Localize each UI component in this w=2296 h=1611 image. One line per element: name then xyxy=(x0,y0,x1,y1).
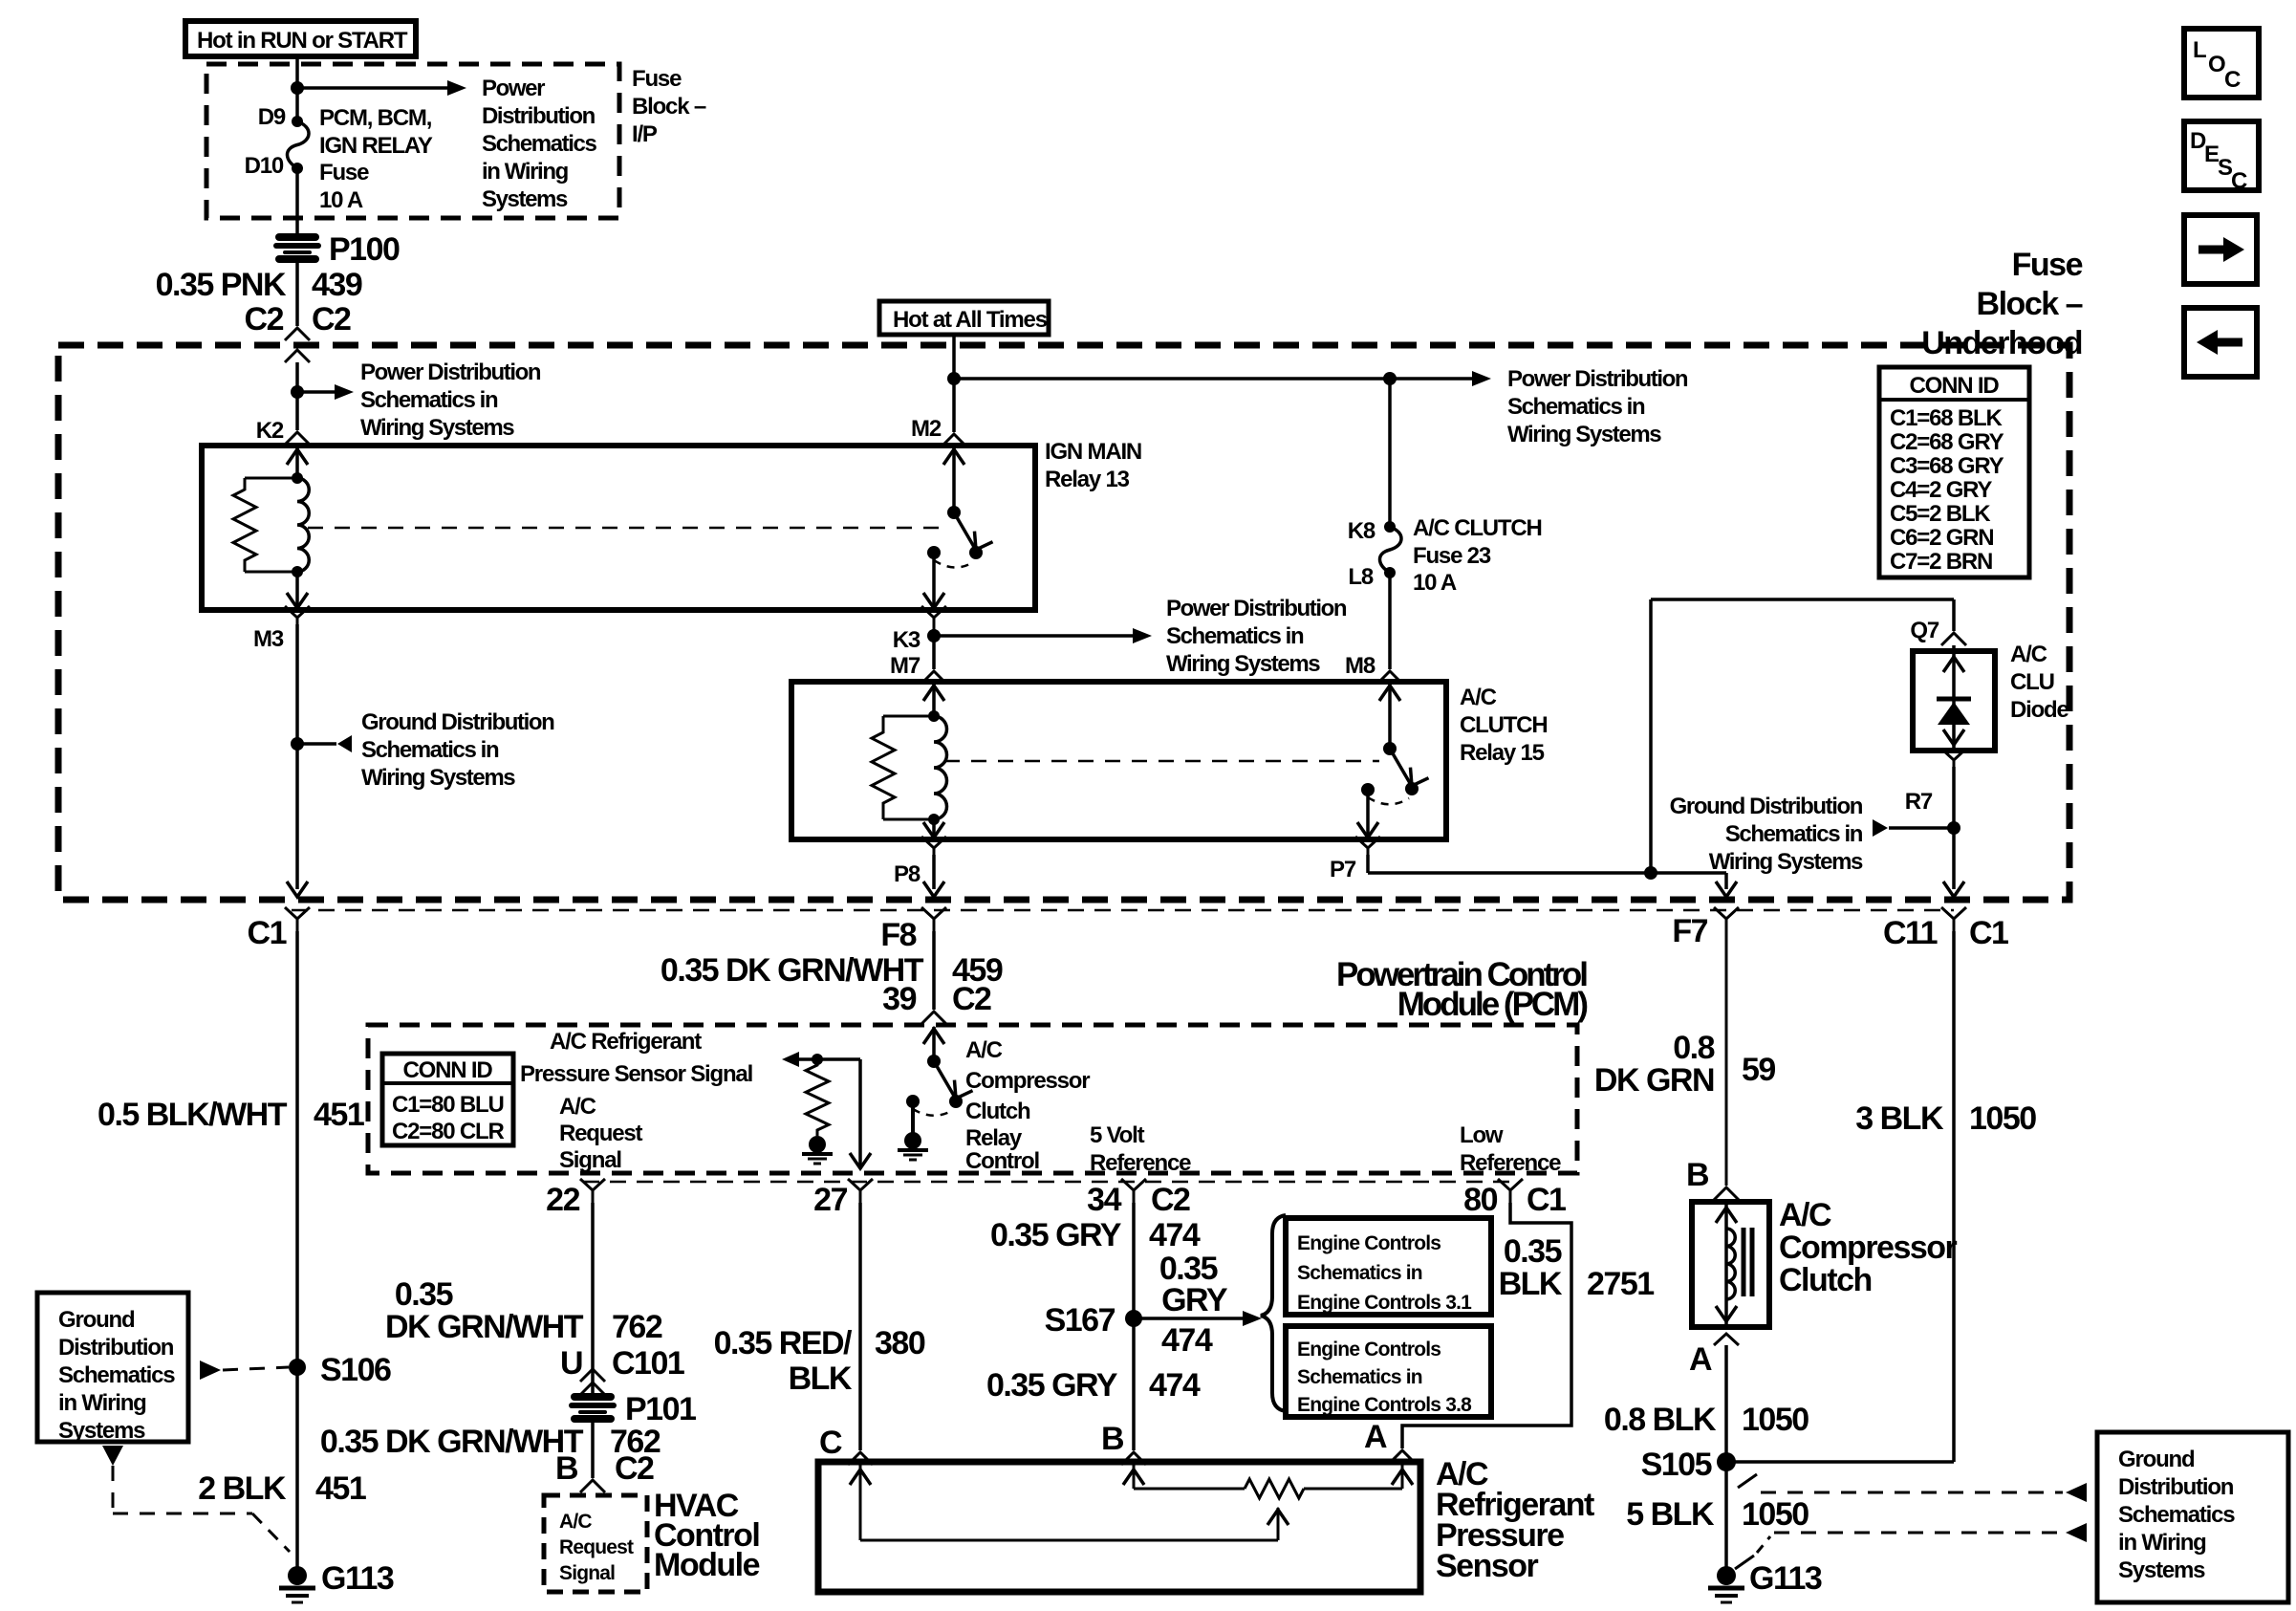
svg-text:3 BLK: 3 BLK xyxy=(1855,1100,1944,1137)
svg-text:M2: M2 xyxy=(911,416,942,442)
svg-text:A/C: A/C xyxy=(559,1511,592,1533)
connector P101 xyxy=(572,1397,614,1419)
pin A of compressor clutch xyxy=(1714,1334,1739,1345)
node R7 xyxy=(1941,749,1966,773)
wire P100 to underhood fuse block, circuit 439 PNK xyxy=(295,259,299,326)
svg-text:Systems: Systems xyxy=(58,1418,145,1444)
svg-text:39: 39 xyxy=(882,981,916,1017)
button arrow right xyxy=(2184,215,2257,284)
wire 762 to HVAC xyxy=(591,1419,595,1478)
svg-text:Power Distribution: Power Distribution xyxy=(360,359,541,385)
CONN ID table (underhood) xyxy=(1879,367,2029,577)
svg-text:BLK: BLK xyxy=(789,1361,853,1397)
svg-text:Schematics in: Schematics in xyxy=(1725,821,1863,847)
svg-text:Pressure Sensor Signal: Pressure Sensor Signal xyxy=(520,1061,752,1087)
svg-text:Schematics in: Schematics in xyxy=(1507,394,1645,420)
PCM internal clutch relay control switch xyxy=(932,1027,936,1061)
svg-text:S167: S167 xyxy=(1045,1302,1116,1339)
pin 80 / C1 xyxy=(1498,1179,1523,1203)
node P7 below relay xyxy=(1355,837,1380,860)
svg-text:S106: S106 xyxy=(320,1352,391,1388)
svg-text:Module: Module xyxy=(654,1547,760,1583)
svg-text:Fuse 23: Fuse 23 xyxy=(1413,543,1491,569)
dashed ref to S106 xyxy=(200,1361,221,1380)
svg-text:Schematics in: Schematics in xyxy=(360,387,498,413)
svg-text:K2: K2 xyxy=(256,418,284,444)
svg-text:Request: Request xyxy=(559,1121,642,1146)
pin C11 / C1 xyxy=(1941,907,1966,931)
svg-text:A: A xyxy=(1689,1341,1712,1378)
svg-text:A/C: A/C xyxy=(965,1037,1003,1063)
wire M2 feed from Hot at All Times xyxy=(952,335,956,432)
svg-text:M7: M7 xyxy=(890,653,921,679)
CONN ID table (PCM) xyxy=(382,1054,513,1145)
svg-text:Engine Controls: Engine Controls xyxy=(1297,1339,1440,1361)
button DESC xyxy=(2184,121,2259,190)
svg-text:C11: C11 xyxy=(1883,915,1938,951)
svg-text:M3: M3 xyxy=(253,626,284,652)
svg-text:Schematics in: Schematics in xyxy=(361,737,499,763)
pin F8 xyxy=(921,907,946,931)
junction node diode branch on P7 wire xyxy=(1644,866,1657,880)
svg-text:M8: M8 xyxy=(1345,653,1375,679)
svg-text:P101: P101 xyxy=(625,1391,696,1427)
svg-text:Power: Power xyxy=(482,76,545,101)
svg-text:1050: 1050 xyxy=(1969,1100,2036,1137)
wire M3 to C1 pin, exit arrow xyxy=(287,882,308,897)
PCM connector face dashed line xyxy=(292,909,1954,912)
wire L8 to M8 xyxy=(1388,573,1392,669)
svg-text:451: 451 xyxy=(315,1470,366,1507)
svg-text:Q7: Q7 xyxy=(1910,618,1939,643)
svg-text:D10: D10 xyxy=(245,153,284,179)
svg-text:G113: G113 xyxy=(321,1560,394,1597)
relay coil exit arrow (M3) xyxy=(295,572,299,608)
svg-text:P100: P100 xyxy=(329,231,400,268)
relay coil entry arrow (M7) xyxy=(932,684,936,716)
svg-text:D9: D9 xyxy=(258,104,286,130)
relay coil + resistor parallel xyxy=(292,472,303,484)
svg-text:Engine Controls: Engine Controls xyxy=(1297,1232,1440,1254)
svg-text:Compressor: Compressor xyxy=(1779,1230,1958,1266)
button LOC xyxy=(2184,29,2259,98)
svg-text:Signal: Signal xyxy=(559,1562,615,1584)
svg-text:Block –: Block – xyxy=(632,94,706,120)
relay coil entry arrow (K2) xyxy=(295,447,299,478)
svg-text:34: 34 xyxy=(1087,1182,1121,1218)
svg-text:in Wiring: in Wiring xyxy=(2118,1530,2206,1556)
svg-text:Wiring Systems: Wiring Systems xyxy=(1166,651,1320,677)
svg-text:Schematics: Schematics xyxy=(58,1362,175,1388)
svg-text:C1=80 BLU: C1=80 BLU xyxy=(392,1092,504,1118)
engine controls ref box 3.8 xyxy=(1286,1326,1491,1417)
splice S106 xyxy=(289,1359,306,1376)
svg-text:IGN RELAY: IGN RELAY xyxy=(319,133,433,159)
svg-text:Clutch: Clutch xyxy=(965,1099,1030,1124)
svg-text:C2: C2 xyxy=(1151,1182,1190,1218)
brace for engine controls refs xyxy=(1261,1215,1286,1411)
svg-text:C1: C1 xyxy=(1969,915,2008,951)
dashed ref below box to G113 xyxy=(102,1446,123,1466)
svg-text:C2: C2 xyxy=(312,301,351,337)
svg-text:CONN ID: CONN ID xyxy=(1910,373,2000,399)
relay IGN MAIN Relay 13 box xyxy=(202,446,1035,610)
svg-text:Compressor: Compressor xyxy=(965,1068,1090,1094)
wire hot feed to K8 and power dist ref xyxy=(954,377,1472,381)
svg-text:Engine Controls 3.8: Engine Controls 3.8 xyxy=(1297,1394,1472,1416)
HVAC control module dashed box xyxy=(544,1495,647,1592)
wire 1050 BLK to S105 xyxy=(1724,1345,1728,1576)
svg-text:A/C: A/C xyxy=(1460,685,1497,710)
svg-text:C101: C101 xyxy=(612,1345,684,1382)
svg-text:C: C xyxy=(2224,67,2241,93)
svg-text:A/C: A/C xyxy=(559,1094,596,1120)
svg-text:Module (PCM): Module (PCM) xyxy=(1397,986,1588,1023)
svg-text:0.5 BLK/WHT: 0.5 BLK/WHT xyxy=(97,1097,288,1133)
Hot at All Times box xyxy=(879,301,1049,335)
svg-text:A/C: A/C xyxy=(2010,642,2047,667)
svg-text:Ground Distribution: Ground Distribution xyxy=(1670,794,1863,819)
svg-text:S105: S105 xyxy=(1641,1447,1712,1483)
svg-text:C7=2 BRN: C7=2 BRN xyxy=(1890,549,1992,575)
pin C1 (left) xyxy=(285,907,310,931)
wire 380 RED/BLK (pin 27 to sensor C) xyxy=(858,1203,862,1450)
svg-text:DK GRN/WHT: DK GRN/WHT xyxy=(385,1309,584,1345)
svg-text:Power Distribution: Power Distribution xyxy=(1166,596,1347,621)
relay switch (M2 to K3) xyxy=(952,447,956,512)
svg-text:Schematics in: Schematics in xyxy=(1166,623,1304,649)
svg-text:L8: L8 xyxy=(1348,564,1373,590)
junction node M2 feed xyxy=(947,372,961,385)
A/C Compressor Clutch box xyxy=(1692,1202,1769,1327)
svg-text:A/C: A/C xyxy=(1779,1197,1831,1233)
svg-text:22: 22 xyxy=(546,1182,579,1218)
svg-text:A/C CLUTCH: A/C CLUTCH xyxy=(1413,515,1542,541)
PCM bottom connector face dashed line xyxy=(583,1181,1510,1184)
svg-text:C6=2 GRN: C6=2 GRN xyxy=(1890,525,1993,551)
Fuse Block I/P dashed box xyxy=(206,64,619,218)
wire 2751 BLK (pin 80 to sensor A) xyxy=(1402,1203,1571,1448)
sensor internals xyxy=(859,1464,862,1540)
svg-text:2751: 2751 xyxy=(1587,1266,1654,1302)
ground dist box (right) xyxy=(2097,1432,2288,1602)
svg-text:BLK: BLK xyxy=(1499,1266,1563,1302)
junction node K8 feed xyxy=(1383,372,1397,385)
svg-text:A: A xyxy=(1364,1419,1387,1455)
svg-text:G113: G113 xyxy=(1749,1560,1822,1597)
svg-text:Diode: Diode xyxy=(2010,697,2069,723)
ground dist ref at M3 xyxy=(291,737,304,751)
switch NC dashed arc xyxy=(1368,797,1409,804)
svg-text:C2=68 GRY: C2=68 GRY xyxy=(1890,429,2004,455)
svg-text:C3=68 GRY: C3=68 GRY xyxy=(1890,453,2004,479)
svg-text:Distribution: Distribution xyxy=(482,103,596,129)
svg-text:1050: 1050 xyxy=(1742,1496,1809,1533)
svg-text:C5=2 BLK: C5=2 BLK xyxy=(1890,501,1991,527)
node M7 xyxy=(932,629,936,669)
svg-text:380: 380 xyxy=(875,1325,925,1361)
svg-text:Engine Controls 3.1: Engine Controls 3.1 xyxy=(1297,1292,1472,1314)
svg-text:80: 80 xyxy=(1463,1182,1497,1218)
svg-text:C4=2 GRY: C4=2 GRY xyxy=(1890,477,1992,503)
relay coil exit arrow (P8) xyxy=(932,819,936,838)
wire 474 GRY (pin 34 to sensor B) xyxy=(1132,1203,1136,1450)
PCM internal divider: signal arrow + resistor to ground xyxy=(786,1057,860,1061)
svg-text:762: 762 xyxy=(612,1309,662,1345)
svg-text:Wiring Systems: Wiring Systems xyxy=(1507,422,1661,447)
svg-text:Reference: Reference xyxy=(1460,1150,1561,1176)
button arrow left xyxy=(2184,308,2257,377)
svg-text:451: 451 xyxy=(314,1097,364,1133)
svg-text:10 A: 10 A xyxy=(319,187,363,213)
svg-text:Systems: Systems xyxy=(2118,1557,2205,1583)
svg-text:Sensor: Sensor xyxy=(1436,1548,1539,1584)
svg-text:CLU: CLU xyxy=(2010,669,2054,695)
svg-text:IGN MAIN: IGN MAIN xyxy=(1045,439,1141,465)
svg-text:Ground: Ground xyxy=(2118,1447,2195,1472)
wire fuse to P100 xyxy=(295,168,299,237)
svg-text:F8: F8 xyxy=(880,917,916,953)
svg-text:Schematics: Schematics xyxy=(2118,1502,2235,1528)
ground dist ref at R7 xyxy=(1947,821,1960,835)
svg-text:in Wiring: in Wiring xyxy=(482,159,569,185)
relay switch (M8 to P7) xyxy=(1388,684,1392,749)
svg-text:Signal: Signal xyxy=(559,1147,621,1173)
switch NC dashed arc xyxy=(934,560,973,568)
relay coil + resistor parallel xyxy=(928,710,940,722)
svg-text:474: 474 xyxy=(1161,1322,1213,1359)
svg-text:0.35: 0.35 xyxy=(395,1276,453,1313)
svg-text:5 Volt: 5 Volt xyxy=(1090,1122,1145,1148)
svg-text:1050: 1050 xyxy=(1742,1402,1809,1438)
svg-text:C2=80 CLR: C2=80 CLR xyxy=(392,1119,504,1144)
svg-text:Block –: Block – xyxy=(1977,286,2083,322)
engine controls ref box 3.1 xyxy=(1286,1218,1491,1315)
relay activation dashed link xyxy=(308,527,939,530)
relay activation dashed link xyxy=(944,760,1379,763)
svg-text:439: 439 xyxy=(312,267,362,303)
svg-text:C2: C2 xyxy=(615,1450,654,1487)
svg-text:5 BLK: 5 BLK xyxy=(1626,1496,1715,1533)
svg-text:Low: Low xyxy=(1460,1122,1504,1148)
svg-text:27: 27 xyxy=(813,1182,847,1218)
svg-text:Relay: Relay xyxy=(965,1125,1023,1151)
svg-text:B: B xyxy=(1686,1157,1709,1193)
svg-text:B: B xyxy=(555,1450,578,1487)
svg-text:59: 59 xyxy=(1742,1052,1775,1088)
wire 762 DK GRN/WHT (A/C request) xyxy=(591,1203,595,1395)
svg-text:Control: Control xyxy=(965,1148,1039,1174)
svg-text:Fuse: Fuse xyxy=(2012,247,2083,283)
svg-text:A/C Refrigerant: A/C Refrigerant xyxy=(550,1029,702,1055)
connector P100 xyxy=(276,237,318,259)
pin 22 xyxy=(580,1179,605,1203)
pin 34 / C2 xyxy=(1121,1179,1146,1203)
svg-text:0.35 GRY: 0.35 GRY xyxy=(986,1367,1118,1404)
svg-text:Schematics in: Schematics in xyxy=(1297,1262,1422,1284)
svg-text:Schematics in: Schematics in xyxy=(1297,1366,1422,1388)
sensor A/C Refrigerant Pressure Sensor box xyxy=(818,1462,1420,1592)
svg-text:Ground Distribution: Ground Distribution xyxy=(361,709,554,735)
svg-text:C2: C2 xyxy=(245,301,284,337)
svg-text:Relay 15: Relay 15 xyxy=(1460,740,1545,766)
Fuse Block - Underhood dashed box xyxy=(58,345,2069,900)
ground dist box (left) xyxy=(37,1293,188,1442)
svg-text:474: 474 xyxy=(1149,1367,1201,1404)
node M3 below relay xyxy=(285,606,310,630)
svg-text:C1: C1 xyxy=(1527,1182,1566,1218)
svg-text:O: O xyxy=(2208,52,2225,77)
svg-text:Wiring Systems: Wiring Systems xyxy=(1709,849,1863,875)
svg-text:Hot at All Times: Hot at All Times xyxy=(893,307,1048,333)
svg-text:0.8: 0.8 xyxy=(1673,1030,1714,1066)
svg-text:P7: P7 xyxy=(1330,857,1356,882)
pin 27 xyxy=(848,1179,873,1203)
svg-text:Wiring Systems: Wiring Systems xyxy=(361,765,515,791)
splice S105 xyxy=(1717,1452,1736,1471)
svg-text:0.35 RED/: 0.35 RED/ xyxy=(714,1325,853,1361)
svg-text:0.35: 0.35 xyxy=(1504,1233,1562,1270)
svg-text:R7: R7 xyxy=(1905,789,1933,815)
svg-text:P8: P8 xyxy=(894,861,921,887)
S167 branch arrow to engine controls refs xyxy=(1134,1317,1243,1320)
svg-text:2 BLK: 2 BLK xyxy=(198,1470,287,1507)
wire P7 to F7 xyxy=(1366,855,1370,873)
node K3 below relay xyxy=(921,606,946,630)
svg-text:Wiring Systems: Wiring Systems xyxy=(360,415,514,441)
wire 59 DK GRN (F7 to compressor clutch B) xyxy=(1725,931,1728,1186)
svg-text:DK GRN: DK GRN xyxy=(1594,1062,1714,1099)
svg-text:Fuse: Fuse xyxy=(632,66,682,92)
svg-text:Underhood: Underhood xyxy=(1921,325,2082,361)
svg-text:Fuse: Fuse xyxy=(319,160,369,185)
dashed ground dist refs (right) xyxy=(1738,1474,1757,1488)
svg-text:C: C xyxy=(2231,168,2247,194)
svg-text:Clutch: Clutch xyxy=(1779,1262,1872,1298)
svg-text:GRY: GRY xyxy=(1161,1282,1228,1318)
splice S167 xyxy=(1125,1310,1142,1327)
wire 451 BLK/WHT left column xyxy=(295,931,299,1576)
svg-text:in Wiring: in Wiring xyxy=(58,1390,146,1416)
diode A/C CLU Diode box xyxy=(1913,651,1995,751)
svg-text:Systems: Systems xyxy=(482,186,568,212)
svg-text:C1=68 BLK: C1=68 BLK xyxy=(1890,405,2003,431)
svg-text:0.35 GRY: 0.35 GRY xyxy=(990,1217,1122,1253)
svg-text:Ground: Ground xyxy=(58,1307,135,1333)
svg-text:CONN ID: CONN ID xyxy=(403,1057,493,1083)
svg-text:474: 474 xyxy=(1149,1217,1201,1253)
svg-text:Distribution: Distribution xyxy=(2118,1474,2234,1500)
svg-text:Distribution: Distribution xyxy=(58,1335,174,1361)
svg-text:L: L xyxy=(2193,37,2206,63)
ground G113 (right) xyxy=(1717,1566,1736,1585)
ground G113 (left) xyxy=(288,1566,307,1585)
svg-text:F7: F7 xyxy=(1672,913,1707,949)
svg-text:I/P: I/P xyxy=(632,121,658,147)
Hot in RUN or START box xyxy=(185,21,416,56)
svg-text:Hot in RUN or START: Hot in RUN or START xyxy=(197,28,408,54)
wire from Hot in RUN box into fuse block xyxy=(295,56,299,121)
svg-text:C: C xyxy=(819,1425,842,1461)
svg-text:K3: K3 xyxy=(893,627,921,653)
svg-text:Relay 13: Relay 13 xyxy=(1045,467,1130,492)
svg-text:B: B xyxy=(1101,1421,1124,1457)
svg-text:U: U xyxy=(560,1345,582,1382)
wire K3 power dist ref xyxy=(934,634,1133,638)
svg-text:Request: Request xyxy=(559,1536,634,1558)
relay A/C CLUTCH Relay 15 box xyxy=(791,682,1446,839)
svg-text:PCM, BCM,: PCM, BCM, xyxy=(319,105,432,131)
junction node (top-left power dist branch) xyxy=(291,81,304,95)
svg-text:0.35 DK GRN/WHT: 0.35 DK GRN/WHT xyxy=(320,1424,584,1460)
svg-text:0.35 PNK: 0.35 PNK xyxy=(156,267,287,303)
svg-text:C2: C2 xyxy=(952,981,991,1017)
svg-text:10 A: 10 A xyxy=(1413,570,1457,596)
wire diode branch loop xyxy=(1649,599,1653,873)
wire F8 to PCM pin 39, circuit 459 xyxy=(932,931,936,1010)
svg-text:Power Distribution: Power Distribution xyxy=(1507,366,1688,392)
svg-text:Schematics: Schematics xyxy=(482,131,596,157)
PCM dashed box xyxy=(368,1025,1577,1173)
node P8 below relay xyxy=(921,837,946,860)
svg-text:Reference: Reference xyxy=(1090,1150,1191,1176)
wire power dist branch arrow xyxy=(297,86,447,90)
pin F7 xyxy=(1714,907,1739,931)
wire K2 branch with power dist ref xyxy=(295,386,299,430)
diode symbol xyxy=(1937,697,1971,702)
svg-text:CLUTCH: CLUTCH xyxy=(1460,712,1547,738)
wire S105 to fuse block C1 (3 BLK 1050) xyxy=(1726,1460,1954,1464)
svg-text:C1: C1 xyxy=(248,915,287,951)
svg-text:0.8 BLK: 0.8 BLK xyxy=(1604,1402,1717,1438)
svg-text:K8: K8 xyxy=(1348,518,1375,544)
